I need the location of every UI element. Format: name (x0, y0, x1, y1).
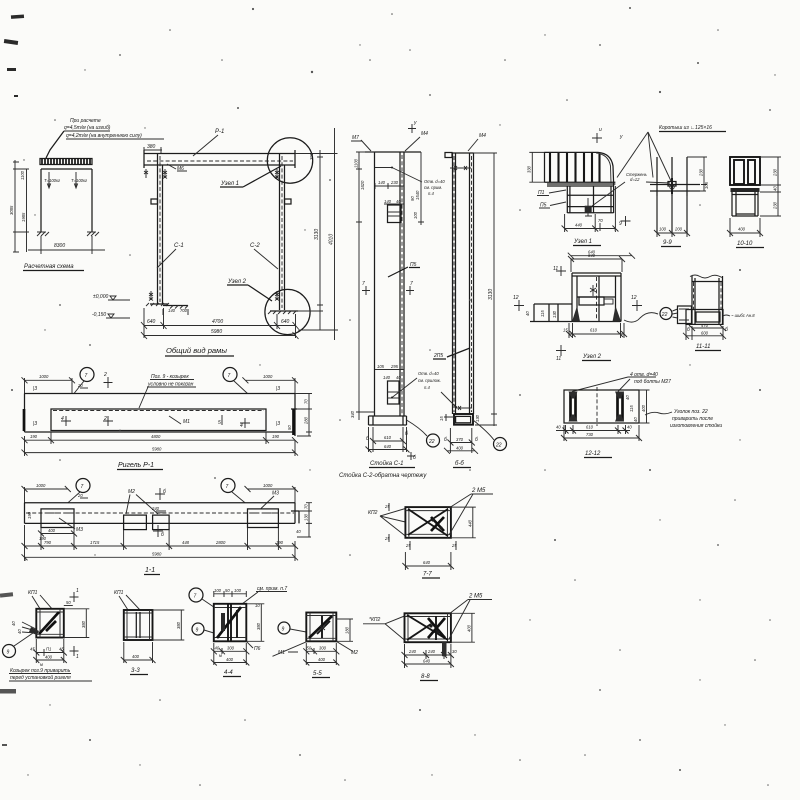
right dim 380 (153, 610, 185, 640)
label Узел 2 with leader (227, 279, 272, 301)
label КП2 pointing to 8-8 (363, 616, 405, 640)
svg-text:5980: 5980 (211, 329, 222, 335)
bottom dim 640 (402, 552, 454, 570)
svg-text:изготовления стойки: изготовления стойки (670, 422, 722, 429)
svg-text:б: б (687, 327, 690, 333)
top right dim 1000 (242, 374, 298, 394)
svg-text:б: б (725, 327, 728, 333)
cut marks 7-7 on stand (362, 281, 414, 295)
left column base (146, 303, 188, 315)
right dims of 10-10 (760, 157, 781, 216)
svg-text:115: 115 (540, 310, 545, 317)
svg-text:у: у (413, 120, 417, 126)
svg-text:Ригель Р-1: Ригель Р-1 (118, 462, 154, 469)
svg-text:100: 100 (214, 588, 222, 593)
title 11-11 (695, 344, 721, 351)
labels М1 М2 (273, 641, 359, 656)
svg-text:б: б (413, 455, 416, 461)
svg-text:100: 100 (659, 227, 667, 232)
svg-text:П6: П6 (254, 646, 261, 652)
corner feet (572, 306, 580, 322)
svg-text:Расчетная схема: Расчетная схема (24, 264, 74, 270)
cut mark 9 right (619, 216, 631, 227)
svg-text:б: б (475, 437, 478, 443)
right dim 440 (451, 507, 476, 538)
svg-text:2 М5: 2 М5 (468, 594, 483, 600)
right dim 400 (451, 613, 475, 642)
label 2 М5 with leaders (449, 594, 492, 640)
svg-text:q=4,5т/м (на изгиб): q=4,5т/м (на изгиб) (64, 125, 111, 131)
circle 9 leader (192, 623, 214, 635)
label С-2 with leader (250, 243, 278, 269)
svg-text:12-12: 12-12 (585, 451, 601, 457)
svg-text:400: 400 (466, 624, 471, 632)
bottom dims узел 2 (563, 323, 627, 338)
svg-text:б: б (161, 532, 164, 538)
bottom dims 11-11 (683, 323, 728, 340)
svg-text:1100: 1100 (20, 170, 25, 180)
svg-text:140: 140 (383, 375, 391, 380)
cut marks 12 (513, 295, 642, 311)
bottom dim chain 1-1 (22, 525, 299, 561)
svg-text:Стойка С-1: Стойка С-1 (370, 460, 403, 467)
svg-text:7: 7 (228, 373, 231, 379)
left dim 330 (527, 152, 546, 182)
label М7 with leader (351, 135, 371, 151)
svg-text:400: 400 (641, 404, 646, 412)
top dim 840 (568, 253, 625, 272)
svg-text:280: 280 (304, 416, 309, 425)
label С-1 with leader (157, 243, 184, 268)
box 8-8 (405, 613, 451, 656)
svg-text:440: 440 (575, 223, 583, 228)
title 7-7 (422, 572, 440, 579)
cut mark б bottom (153, 525, 164, 538)
svg-text:130: 130 (475, 414, 480, 422)
svg-text:8-8: 8-8 (421, 674, 430, 680)
bolt marks top-left corner (144, 169, 167, 179)
svg-text:400: 400 (226, 657, 234, 662)
svg-text:130: 130 (304, 513, 309, 521)
svg-text:7: 7 (362, 281, 365, 287)
detail circle Узел 1 (267, 138, 312, 183)
svg-text:190: 190 (30, 434, 38, 439)
title 8-8 (420, 674, 438, 681)
circle 7 right with leader (223, 368, 248, 394)
svg-text:400: 400 (132, 654, 140, 659)
right column tab (285, 199, 292, 204)
middle bar (579, 297, 604, 305)
svg-text:С-1: С-1 (174, 243, 184, 249)
svg-text:190: 190 (276, 540, 284, 545)
svg-text:б: б (444, 437, 447, 443)
box 5-5 (306, 613, 336, 642)
svg-text:70: 70 (598, 218, 603, 223)
svg-text:700: 700 (180, 308, 188, 313)
top dims (214, 588, 247, 597)
note 4 отв d=40 под болты М27 (572, 372, 671, 392)
svg-text:3085: 3085 (9, 205, 14, 215)
svg-text:При расчете: При расчете (70, 118, 101, 124)
plan rectangle (564, 387, 639, 426)
bottom dim of 10-10 (727, 218, 763, 237)
svg-text:295: 295 (390, 364, 399, 369)
svg-text:40: 40 (633, 417, 638, 422)
title 3-3 (130, 668, 148, 675)
svg-text:1-1: 1-1 (145, 567, 155, 574)
bottom dimension 8300 (28, 236, 105, 254)
svg-text:q=4,2т/м (на внутреннюю силу): q=4,2т/м (на внутреннюю силу) (66, 133, 142, 139)
svg-text:под болты М27: под болты М27 (634, 379, 671, 385)
title: Расчетная схема (23, 264, 84, 271)
svg-text:М1: М1 (183, 419, 190, 425)
svg-text:340: 340 (350, 410, 355, 418)
svg-text:180: 180 (345, 626, 350, 634)
svg-text:15: 15 (439, 416, 444, 421)
svg-text:1100: 1100 (354, 158, 359, 168)
label Р-1 with leader (193, 129, 224, 156)
column below узел 1 (567, 183, 613, 213)
svg-text:М3: М3 (76, 527, 83, 533)
svg-text:70: 70 (304, 504, 309, 509)
beam band 1-1 (25, 503, 296, 524)
lower anchor mark with leader (441, 392, 472, 410)
bottom dims of 9-9 (654, 196, 690, 237)
right dim 380 (64, 609, 90, 638)
svg-text:300: 300 (227, 645, 235, 650)
top tab (445, 153, 452, 158)
lower slot detail (383, 375, 401, 404)
svg-text:5980: 5980 (152, 551, 162, 556)
svg-text:840: 840 (588, 253, 596, 258)
svg-text:640: 640 (147, 319, 156, 325)
svg-text:230: 230 (699, 168, 704, 177)
lower hole dims 105 295 (375, 364, 404, 370)
svg-text:1000: 1000 (263, 374, 273, 379)
section marks б (366, 431, 416, 461)
svg-text:400: 400 (456, 446, 464, 451)
top dims 1000 (22, 483, 299, 503)
svg-text:б-б: б-б (455, 461, 464, 467)
box 4-4 (214, 604, 247, 642)
svg-text:22: 22 (428, 439, 435, 445)
25 marks below box (405, 541, 457, 550)
title 10-10 (736, 241, 764, 248)
svg-text:380: 380 (147, 144, 156, 150)
right dim 380 (246, 604, 264, 642)
svg-text:105: 105 (377, 364, 385, 369)
svg-text:380: 380 (176, 621, 181, 629)
svg-text:22: 22 (661, 312, 668, 318)
svg-text:|3: |3 (276, 421, 280, 427)
svg-text:40: 40 (396, 199, 401, 204)
svg-text:3-3: 3-3 (131, 668, 140, 674)
svg-text:б: б (405, 431, 408, 437)
svg-text:40: 40 (17, 629, 22, 634)
svg-text:см. прилож.: см. прилож. (418, 378, 441, 383)
bolt marks bottom-right corner (275, 291, 279, 301)
svg-text:240: 240 (151, 506, 160, 511)
svg-text:М3: М3 (272, 491, 279, 497)
svg-text:у: у (619, 134, 623, 140)
svg-text:640: 640 (281, 319, 290, 325)
svg-text:190: 190 (27, 511, 32, 519)
anchor bolt in 9-9 (671, 178, 673, 194)
svg-text:4: 4 (240, 423, 243, 429)
title 5-5 (312, 671, 330, 678)
svg-text:4-4: 4-4 (224, 670, 233, 676)
left support hatch (37, 232, 49, 236)
cut mark 2 top (103, 372, 113, 388)
svg-text:2800: 2800 (215, 540, 226, 545)
svg-text:2: 2 (103, 416, 107, 422)
svg-text:8300: 8300 (54, 243, 65, 249)
svg-text:240: 240 (408, 649, 417, 654)
svg-text:М7: М7 (352, 135, 359, 141)
wavy leader to circle 22 (624, 313, 658, 322)
svg-text:9: 9 (7, 650, 10, 656)
bolt marks top-right corner (275, 169, 279, 179)
right end step and dims (291, 503, 312, 537)
svg-text:КП1: КП1 (114, 590, 124, 596)
svg-text:приварить после: приварить после (672, 416, 713, 422)
right dim (336, 619, 353, 641)
label П5 with leader (388, 262, 420, 277)
svg-text:3130: 3130 (314, 229, 320, 240)
cut marks at top of узел 1 (592, 127, 623, 143)
svg-text:Т=100кг: Т=100кг (71, 178, 87, 183)
svg-text:3130: 3130 (488, 289, 494, 300)
cut/poz marks on beam (33, 386, 280, 429)
svg-text:40: 40 (556, 425, 561, 430)
svg-text:40: 40 (627, 425, 632, 430)
svg-text:330: 330 (527, 165, 532, 173)
svg-text:9: 9 (282, 627, 285, 633)
svg-text:50: 50 (307, 645, 312, 650)
load arrows T=100kg (44, 172, 87, 188)
svg-text:115: 115 (629, 405, 634, 412)
right column C-2 of frame (280, 154, 285, 311)
note Отв d=40 lower (391, 371, 441, 399)
svg-text:4: 4 (61, 416, 64, 422)
svg-text:400: 400 (738, 227, 746, 232)
bottom dims (30, 639, 67, 667)
right side dim lines of frame (295, 128, 338, 340)
svg-text:С-2: С-2 (250, 243, 260, 249)
svg-text:7: 7 (410, 281, 413, 287)
svg-text:400: 400 (48, 528, 56, 533)
circle 22 shared (660, 308, 678, 320)
svg-text:380: 380 (81, 620, 86, 628)
svg-text:|3: |3 (276, 386, 280, 392)
title б-б (453, 461, 471, 468)
title 1-1 (144, 567, 160, 575)
svg-text:40: 40 (215, 645, 220, 650)
svg-text:Отв. d=40: Отв. d=40 (424, 179, 445, 184)
marks 25 left (384, 503, 390, 542)
right angles (618, 392, 623, 422)
svg-text:П1: П1 (46, 647, 51, 652)
svg-text:448: 448 (182, 540, 190, 545)
left attach plate (678, 306, 692, 324)
base box (439, 414, 480, 425)
svg-text:5: 5 (218, 420, 221, 426)
note см прим п7 (242, 586, 287, 604)
bolt cross (590, 285, 596, 296)
left wing of узел 2 (525, 304, 572, 322)
svg-text:45: 45 (30, 647, 35, 652)
label М4 with leader (468, 133, 486, 151)
note Коротыш из L125x16 with triangle leaders (617, 125, 726, 181)
svg-text:1000: 1000 (263, 483, 273, 488)
ribbed beam top (545, 152, 616, 186)
svg-text:Узел 1: Узел 1 (573, 239, 592, 245)
svg-text:30: 30 (452, 649, 457, 654)
svg-text:5980: 5980 (152, 447, 162, 452)
top dim 380 left (144, 144, 162, 153)
leader to load bar (46, 131, 64, 158)
svg-text:370: 370 (456, 437, 464, 442)
hole mark with leader to note (375, 167, 445, 197)
svg-text:-0,150: -0,150 (92, 312, 106, 318)
bottom dims 12-12 (556, 425, 642, 442)
distributed load hatched bar (40, 159, 92, 165)
dims 140 230 (375, 180, 404, 189)
corner scan marks top-left (4, 15, 24, 97)
right column base (268, 311, 298, 314)
svg-text:см. прим.: см. прим. (424, 185, 442, 190)
svg-text:Общий вид рамы: Общий вид рамы (166, 346, 227, 355)
calc scheme frame outline (41, 169, 92, 232)
svg-text:КП2: КП2 (368, 510, 378, 516)
svg-text:230: 230 (773, 168, 778, 177)
svg-text:Узел 1: Узел 1 (220, 181, 239, 187)
right support hatch (87, 232, 99, 236)
top left dim 1000 (22, 374, 89, 394)
svg-text:7: 7 (85, 373, 88, 379)
note Поз 9 козырек (139, 374, 196, 408)
lower dim 640 (568, 250, 635, 259)
bolt block (585, 198, 592, 216)
thick band (731, 188, 760, 192)
svg-text:7: 7 (226, 484, 229, 490)
label 2 М5 with leaders (449, 488, 493, 535)
label М3 right with leader (261, 491, 279, 509)
left dimension chain of scheme (9, 160, 29, 252)
svg-text:140: 140 (378, 180, 386, 185)
main box узел 2 (572, 273, 621, 322)
svg-text:22: 22 (495, 443, 502, 449)
svg-text:40: 40 (525, 311, 530, 316)
svg-text:40: 40 (11, 621, 16, 626)
label 2П5 with leader (433, 348, 470, 359)
column shafts (453, 153, 474, 414)
svg-text:640: 640 (384, 444, 392, 449)
svg-text:50: 50 (225, 588, 230, 593)
svg-text:50: 50 (66, 600, 71, 605)
svg-text:перед установкой ригеля: перед установкой ригеля (10, 674, 71, 681)
svg-text:610: 610 (590, 328, 598, 333)
svg-text:390: 390 (309, 152, 314, 160)
svg-text:м: м (40, 662, 43, 667)
svg-text:7: 7 (81, 484, 84, 490)
svg-text:400: 400 (45, 654, 53, 659)
circle 7 right (221, 479, 245, 503)
label П5 (539, 202, 566, 209)
beam R-1 top chords (144, 150, 295, 168)
column top edge with dim ticks (365, 152, 421, 416)
svg-text:1985: 1985 (21, 212, 26, 222)
bottom dim chain of ригель (22, 432, 299, 456)
detail circle Узел 2 (265, 289, 310, 334)
bottom dims б-б (444, 428, 478, 454)
svg-text:190: 190 (272, 434, 280, 439)
circle 7 leader (189, 588, 214, 607)
svg-text:Узел 2: Узел 2 (582, 354, 602, 360)
bottom dims 5-5 (303, 643, 339, 666)
note Уголок поз 22 (645, 409, 722, 429)
svg-text:11-11: 11-11 (696, 344, 710, 350)
label М3 left with leader (59, 518, 83, 533)
svg-text:|3: |3 (33, 386, 37, 392)
level mark ±0.000 (93, 294, 130, 300)
svg-text:5-5: 5-5 (313, 671, 322, 677)
title Узел 2 (582, 354, 611, 361)
left angles (571, 392, 576, 422)
stand base (369, 416, 407, 425)
svg-text:40: 40 (625, 395, 630, 400)
svg-text:7-7: 7-7 (423, 572, 432, 578)
svg-text:Уголок поз. 22: Уголок поз. 22 (674, 409, 708, 415)
svg-text:230: 230 (773, 201, 778, 210)
left dim line of stand (350, 152, 375, 420)
svg-text:9: 9 (619, 221, 622, 227)
svg-text:11: 11 (553, 266, 558, 272)
svg-text:600: 600 (701, 331, 709, 336)
svg-text:1000: 1000 (39, 374, 49, 379)
svg-text:45: 45 (59, 647, 64, 652)
bottom dims узел 1 (562, 186, 619, 232)
beam dashed centerline (147, 160, 293, 162)
svg-text:|3: |3 (33, 421, 37, 427)
cut mark 11 bottom (556, 345, 566, 362)
svg-text:М4: М4 (421, 131, 428, 137)
left column tab (151, 199, 158, 204)
svg-text:200: 200 (674, 227, 683, 232)
svg-text:12: 12 (631, 295, 637, 301)
title 9-9 (661, 240, 681, 247)
svg-text:610: 610 (586, 425, 594, 430)
bottom dims 8-8 (402, 644, 458, 668)
right dim line 3130 (474, 153, 498, 426)
svg-text:м: м (219, 653, 222, 658)
circle 7 left with leader (74, 368, 94, 394)
label М2 with leaders (126, 489, 158, 514)
svg-text:15: 15 (563, 328, 568, 333)
svg-text:12: 12 (513, 295, 519, 301)
svg-text:70: 70 (304, 399, 309, 404)
circle 22 with leader (б-б) (473, 420, 507, 451)
title 4-4 (223, 670, 241, 677)
label М6 with leader (167, 164, 187, 172)
svg-text:М2: М2 (128, 489, 135, 495)
svg-text:1540: 1540 (415, 190, 420, 200)
beam body (24, 394, 297, 437)
svg-text:п.4: п.4 (424, 385, 430, 390)
cut mark у top (408, 120, 417, 133)
svg-text:20: 20 (77, 493, 83, 498)
svg-text:100: 100 (234, 588, 242, 593)
